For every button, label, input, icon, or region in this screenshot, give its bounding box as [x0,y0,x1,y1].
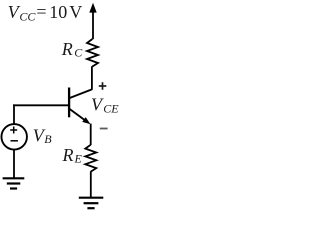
svg-text:=: = [36,2,46,22]
label - (VCE minus) [100,128,108,130]
node VCE label [91,94,119,115]
voltage source VB circle [1,124,27,150]
svg-text:R: R [61,39,73,59]
transistor Q1 emitter diagonal with arrow [70,109,91,124]
wire RE bottom to ground [90,171,92,197]
resistor RE label [62,145,83,166]
source VB label [33,125,53,146]
svg-text:B: B [44,132,52,146]
svg-text:CE: CE [103,101,119,115]
svg-text:V: V [69,2,82,22]
wire RC bottom to collector bend [91,66,93,90]
resistor RE [85,145,96,172]
resistor RC [87,39,98,67]
wire emitter vertical [90,124,92,145]
node VCC label text [8,2,83,24]
transistor Q1 base bar [68,88,70,118]
source + sign [10,127,17,134]
svg-text:E: E [74,152,83,166]
svg-text:10: 10 [49,2,67,22]
svg-text:R: R [62,145,74,165]
wire source bottom to ground [13,149,15,178]
svg-text:CC: CC [19,10,36,24]
label + (VCE plus) [99,82,107,90]
source - sign [11,140,18,142]
wire base [13,104,69,106]
ground (right, below RE) [79,198,104,209]
wire collector diagonal [69,89,92,98]
power supply arrow VCC [89,3,96,39]
ground (left, below VB) [3,178,25,188]
resistor RC label [61,39,83,60]
svg-text:C: C [74,46,83,60]
wire left drop to source [13,104,15,124]
